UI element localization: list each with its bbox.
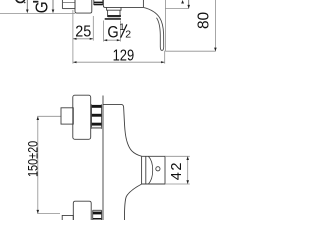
- svg-text:129: 129: [113, 48, 135, 65]
- dimension 42: [165, 155, 190, 157]
- top union escutcheon (front view): [73, 95, 91, 139]
- wire: upper-right extension: [165, 8, 188, 10]
- body top edge and upper right profile: [103, 104, 142, 156]
- svg-text:80: 80: [196, 12, 213, 29]
- top union cap (front view): [61, 108, 73, 124]
- thread second dark band: [105, 18, 121, 20]
- bottom union escutcheon (cut): [73, 201, 91, 220]
- top union nut (front view): [91, 104, 93, 128]
- union flange (plan view): [75, 0, 92, 13]
- svg-text:2: 2: [125, 29, 131, 41]
- dimension 129: [164, 51, 166, 64]
- lower right profile: [124, 184, 141, 220]
- wire: right vertical extension: [164, 0, 166, 51]
- lever handle (plan view): [142, 0, 144, 7]
- dimension 80: [165, 50, 215, 52]
- svg-text:25: 25: [75, 23, 91, 41]
- bottom union nut (cut): [92, 210, 94, 220]
- node F: cut up-arrow fragment: [181, 0, 184, 4]
- outlet step 2 (thread): [107, 10, 109, 15]
- node B: diameter glyph fragment (cut): [16, 0, 25, 3]
- svg-text:G: G: [107, 23, 118, 41]
- dimension 25: [72, 10, 74, 64]
- bracket hole: [156, 167, 160, 171]
- label G1/2: [107, 23, 118, 41]
- wire: extension line under cut-off callouts: [0, 13, 75, 15]
- svg-text:150±20: 150±20: [25, 141, 40, 177]
- escutcheon cap (plan view): [61, 0, 63, 9]
- node E: cut vertical dimension end: [188, 0, 190, 8]
- body left edge / wall line (front view): [102, 96, 104, 221]
- mixer body (plan view): [103, 0, 143, 7]
- thread grey gap: [108, 16, 121, 19]
- svg-text:42: 42: [169, 161, 185, 180]
- bottom union cap (cut): [62, 215, 73, 220]
- thread dark band: [107, 15, 121, 17]
- dimension G1/2 outlet: [103, 21, 105, 42]
- outlet bracket (front view): [142, 156, 165, 184]
- node D: right callout leader (cut at top): [52, 0, 54, 10]
- union nut knurl (plan view): [93, 0, 95, 5]
- node A: left callout leader (cut at top): [26, 0, 28, 10]
- dimension 150±20: [37, 115, 61, 117]
- node C: G1/2 rotated label (cut at top): [31, 1, 51, 13]
- outlet step 1: [107, 7, 121, 10]
- svg-text:G: G: [31, 1, 51, 13]
